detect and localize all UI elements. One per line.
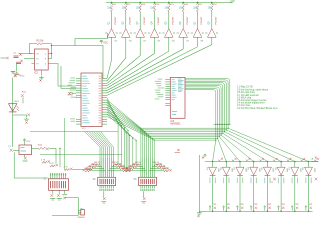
wire col 5 collector down [168, 37, 170, 51]
ground LED branch [24, 118, 29, 121]
wire MCU bus to S2 columns [85, 132, 101, 158]
supply rail left mark [202, 156, 204, 158]
wire S3 to ground [143, 191, 145, 197]
transistor Q8 [208, 29, 217, 38]
svg-text:Q4: Q4 [151, 21, 153, 25]
wire col 5 resistor to transistor [168, 12, 170, 29]
wire S1 feed verticals [55, 148, 57, 163]
switch S2 elements [99, 179, 102, 184]
svg-text:C1: C1 [13, 53, 17, 55]
wire LED8 cathode down [308, 175, 310, 211]
wire diagonals to LED columns [228, 128, 308, 161]
wire bus under MCU [30, 131, 118, 133]
junction bus col 7 [294, 210, 296, 212]
wire S2 column verticals [99, 158, 101, 177]
wire MCU left pin to S1 resistor [63, 118, 65, 170]
IC IC5 box [19, 145, 32, 155]
svg-text:G3: G3 [129, 41, 133, 43]
wire diagonal MCU to col 6 [107, 49, 183, 91]
junction top bus col 8 [211, 2, 213, 4]
switch S2 bottom stubs [99, 186, 101, 189]
wire LED5 cathode down [266, 175, 268, 211]
wire left edge stub [1, 57, 7, 59]
supply pin col 1 [110, 3, 112, 5]
junction rail col 6 [280, 161, 282, 163]
svg-text:R: R [272, 182, 274, 184]
IC IC1 lower left pin stubs [76, 118, 81, 120]
IC IC2 timer box [35, 49, 49, 70]
supply mark right of D4 [260, 160, 262, 162]
resistor R7 [197, 6, 199, 12]
svg-text:IC1: IC1 [82, 128, 86, 130]
transistor Q1 [107, 29, 116, 38]
svg-text:Q7: Q7 [194, 21, 196, 25]
resistor chevron left S2 [95, 164, 100, 166]
switch S3 elements [140, 179, 143, 184]
LED D6 [277, 167, 285, 175]
transistor Q6 base stub [177, 32, 179, 34]
supply VCC at MCU top [100, 40, 103, 43]
svg-text:R11: R11 [112, 4, 117, 6]
transistor Q3 [136, 29, 145, 38]
svg-text:PN2907: PN2907 [129, 16, 131, 25]
supply arrow col 4 [250, 206, 252, 211]
switch S3 box [139, 177, 157, 185]
transistor Q5 [165, 29, 174, 38]
resistor R5 [168, 6, 170, 12]
svg-text:PN2907: PN2907 [187, 16, 189, 25]
supply pin col 4 [153, 3, 155, 5]
wire pin2 to part [24, 58, 32, 60]
resistor R3 [37, 43, 44, 45]
wire RN1c to S2 area [73, 169, 92, 171]
resistor R8 [211, 6, 213, 12]
resistor R12 [39, 147, 46, 149]
wire LED3 cathode down [239, 175, 241, 211]
ground S1 b [57, 194, 60, 197]
svg-text:150: 150 [165, 8, 170, 10]
net label near S3 [177, 149, 179, 151]
svg-text:R16: R16 [184, 4, 189, 6]
svg-text:VCC: VCC [103, 43, 108, 45]
ground S2 [103, 197, 106, 200]
ground S1 a [51, 194, 54, 197]
svg-text:PN2907: PN2907 [158, 16, 160, 25]
resistor bottom col 2 [227, 207, 229, 209]
switch S1 elements [49, 181, 52, 188]
wire col 4 resistor to transistor [154, 12, 156, 29]
IC IC1 left pin stubs [76, 78, 81, 80]
LED D8 [305, 167, 313, 175]
wire LED1 cathode down [212, 175, 214, 211]
IC IC1 left pin labels [71, 77, 76, 80]
resistor chevron right S2 [113, 164, 118, 166]
junction staircase dot row [214, 123, 230, 125]
supply mark right of D2 [232, 160, 234, 162]
flag top of rail [11, 72, 15, 73]
svg-text:R: R [45, 58, 47, 60]
transistor Q4 base stub [148, 32, 150, 34]
wire R12 right [49, 147, 56, 149]
transistor Q5 base stub [162, 32, 164, 34]
wire col 7 resistor to transistor [197, 12, 199, 29]
LED D1 [209, 167, 217, 175]
LED D3 value text [237, 178, 238, 184]
junction rail col 4 [253, 161, 255, 163]
wire C1 to pin1 [19, 53, 32, 55]
switch S3 bottom labels [140, 189, 141, 191]
wire IC5 to S1 [14, 152, 48, 178]
capacitor C1 [19, 53, 22, 56]
svg-text:PN2907: PN2907 [215, 16, 217, 25]
extra part near D8 [315, 178, 318, 181]
transistor Q2 base stub [119, 32, 121, 34]
svg-text:Q1: Q1 [108, 21, 110, 25]
svg-text:S3: S3 [134, 179, 138, 181]
svg-text:LED: LED [314, 168, 316, 172]
junction top bus col 7 [197, 2, 199, 4]
wire IC2 pin to MCU PB [52, 64, 77, 87]
svg-text:R17: R17 [198, 4, 203, 6]
supply pin col 2 [125, 3, 127, 5]
wire inner loop [29, 53, 31, 55]
svg-text:R10: R10 [22, 91, 27, 93]
switch S1 box [49, 179, 69, 191]
net label N$ top-right [230, 1, 233, 3]
junction top bus col 1 [111, 2, 113, 4]
transistor Q7 base stub [191, 32, 193, 34]
transistor Q8 base stub [205, 32, 207, 34]
connector JP1 [78, 209, 80, 211]
svg-text:Q6: Q6 [180, 21, 182, 25]
svg-text:PINHD: PINHD [78, 217, 85, 219]
svg-text:G4: G4 [143, 41, 147, 43]
wire rail to LED3 [239, 162, 241, 168]
capacitor C4 [27, 114, 30, 117]
svg-text:150: 150 [193, 8, 198, 10]
svg-text:4.7K: 4.7K [41, 160, 46, 162]
wire rail to LED5 [266, 162, 268, 168]
wire diagonal MCU to col 3 [107, 56, 140, 84]
wire JP1 bottom [52, 214, 78, 216]
junction bus col 4 [253, 210, 255, 212]
transistor Q3 base stub [134, 32, 136, 34]
junction bus col 5 [267, 210, 269, 212]
wire IC5 right [32, 147, 39, 149]
wire LED6 cathode down [280, 175, 282, 211]
supply pin col 6 [182, 3, 184, 5]
wire LED bottom bus [199, 210, 312, 212]
svg-text:150: 150 [136, 8, 141, 10]
supply pin col 7 [196, 3, 198, 5]
resistor chevron right S3 [154, 164, 159, 166]
IC IC1 pin names [82, 75, 87, 78]
supply pin col 5 [168, 3, 170, 5]
supply arrow col 1 [209, 206, 211, 211]
wire diagonal MCU to col 2 [107, 58, 126, 81]
wire diagonal MCU to col 7 [107, 47, 198, 93]
wire col 6 resistor to transistor [182, 12, 184, 29]
wire col 8 collector down [211, 37, 213, 44]
wire col 1 resistor to transistor [111, 12, 113, 29]
LED D1 value text [209, 178, 210, 184]
wire rail to LED8 [308, 162, 310, 168]
svg-text:PN2907: PN2907 [201, 16, 203, 25]
LED D2 value text [223, 178, 224, 184]
supply mark right of D6 [287, 160, 289, 162]
svg-text:PN2907: PN2907 [115, 16, 117, 25]
supply pin col 8 [211, 3, 213, 5]
wire aux to MCU [61, 66, 76, 88]
supply mark right of D1 [218, 160, 220, 162]
supply mark right of D7 [301, 160, 303, 162]
wire bus mid-left [40, 154, 122, 156]
svg-text:PN2907: PN2907 [172, 16, 174, 25]
svg-text:0.2 lck PSU fixed. Worked! Boo: 0.2 lck PSU fixed. Worked! Boost op a [237, 107, 278, 110]
IC IC2 left pin stubs [32, 53, 35, 55]
svg-text:Q: Q [45, 53, 47, 55]
junction feedback-output [51, 45, 53, 47]
svg-text:4.7K: 4.7K [64, 167, 69, 169]
IC IC3 driver box [170, 77, 185, 118]
wire fan MCU to S2/S3 outer resistors [107, 98, 118, 165]
LED D3 [236, 167, 244, 175]
junction bus col 3 [239, 210, 241, 212]
svg-text:G6: G6 [172, 41, 176, 43]
wire S1 column stubs [50, 173, 52, 179]
svg-text:G7: G7 [186, 41, 190, 43]
svg-text:G5: G5 [157, 41, 161, 43]
wire col 2 resistor to transistor [125, 12, 127, 29]
resistor bottom col 6 [282, 207, 284, 209]
resistor bottom col 1 [214, 207, 216, 209]
resistor chevron left S3 [136, 164, 141, 166]
switch S1 bottom stubs [52, 190, 54, 194]
svg-text:150: 150 [122, 8, 127, 10]
transistor Q4 [150, 29, 159, 38]
supply arrow col 3 [236, 206, 238, 211]
svg-text:R3 1M: R3 1M [37, 41, 44, 43]
svg-text:R12: R12 [38, 144, 43, 146]
resistor R4 [154, 6, 156, 12]
wire IC2 out to MCU [52, 46, 104, 79]
wire LED anode rail [205, 161, 318, 163]
supply pin col 3 [139, 3, 141, 5]
svg-text:150: 150 [208, 8, 213, 10]
ground LED bus [197, 211, 202, 214]
junction bus col 2 [226, 210, 228, 212]
supply arrow col 7 [291, 206, 293, 211]
LED D6 value text [278, 178, 279, 184]
svg-text:R15: R15 [170, 4, 175, 6]
IC IC1 pin numbers [99, 75, 101, 78]
junction rail col 3 [239, 161, 241, 163]
supply arrow col 5 [264, 206, 266, 211]
wire col 7 collector down [197, 37, 199, 47]
LED D5 [263, 167, 271, 175]
svg-text:G8: G8 [200, 41, 204, 43]
svg-text:VCC: VCC [26, 141, 31, 143]
switch S2 box [98, 177, 116, 185]
svg-text:Q2: Q2 [123, 21, 125, 25]
wire rail continues right [311, 161, 319, 163]
wire rail to LED1 [212, 162, 214, 168]
supply VCC IC5 [23, 139, 26, 142]
junction bus col 1 [212, 210, 214, 212]
transistor Q2 [122, 29, 131, 38]
resistor bottom col 4 [255, 207, 257, 209]
wire oscillator output to Q1 base [75, 33, 107, 46]
resistor bottom col 8 [310, 207, 312, 209]
capacitor C2 [20, 60, 23, 63]
svg-text:150: 150 [150, 8, 155, 10]
wire rail to LED4 [253, 162, 255, 168]
wire top VCC bus [106, 1, 230, 3]
supply arrow col 8 [305, 206, 307, 211]
part right of rail [21, 94, 24, 97]
LED D2 [222, 167, 230, 175]
connector X1 [10, 149, 13, 152]
svg-text:R14: R14 [155, 4, 160, 6]
IC IC5 bottom pin [24, 155, 26, 158]
junction top bus col 3 [139, 2, 141, 4]
resistor R3 [139, 6, 141, 12]
switch S1 labels [50, 174, 51, 176]
svg-text:>A: >A [311, 158, 314, 161]
junction top bus col 6 [182, 2, 184, 4]
transistor Q7 [193, 29, 202, 38]
svg-text:TR: TR [36, 53, 39, 55]
wire LED branch [13, 115, 27, 117]
IC IC3 pin names [178, 78, 182, 81]
supply arrow col 2 [223, 206, 225, 211]
wire S1 to JP1 [65, 198, 79, 211]
LED D8 value text [305, 178, 306, 184]
svg-text:150: 150 [107, 8, 112, 10]
IC IC1 right pin stubs [102, 78, 107, 80]
svg-text:PN2907: PN2907 [144, 16, 146, 25]
ground IC2 [41, 70, 43, 76]
wire diagonal MCU to col 1 [107, 60, 112, 79]
wire LED7 cathode down [294, 175, 296, 211]
resistor bottom col 5 [269, 207, 271, 209]
junction rail col 8 [308, 161, 310, 163]
svg-text:MAX6921: MAX6921 [171, 123, 182, 126]
LED D4 [250, 167, 258, 175]
IC IC3 left pin stubs and labels [165, 79, 170, 81]
svg-text:R12: R12 [127, 4, 132, 6]
extra part near D3 [273, 178, 276, 181]
svg-text:R13: R13 [141, 4, 146, 6]
wire col 8 resistor to transistor [211, 12, 213, 29]
wire diagonal MCU to col 5 [107, 51, 169, 88]
wire col 3 resistor to transistor [139, 12, 141, 29]
switch S2 bottom labels [99, 189, 100, 191]
junction bus col 6 [280, 210, 282, 212]
wire C2 down [16, 64, 18, 71]
svg-text:R18: R18 [213, 4, 218, 6]
wire diagonal MCU to col 8 [107, 45, 212, 96]
svg-text:CV: CV [36, 58, 39, 60]
wire LED2 cathode down [225, 175, 227, 211]
transistor Q6 [179, 29, 188, 38]
svg-text:IC3: IC3 [171, 120, 175, 123]
junction rail col 1 [212, 161, 214, 163]
svg-text:G2: G2 [114, 41, 118, 43]
LED D4 value text [251, 178, 252, 184]
LED D7 [291, 167, 299, 175]
wire col 2 collector down [125, 37, 127, 58]
supply mark right of D3 [246, 160, 248, 162]
wire S3 column verticals [140, 158, 142, 177]
wire rail to LED2 [225, 162, 227, 168]
wire S2 to ground [103, 191, 105, 197]
svg-text:IC2: IC2 [34, 71, 39, 74]
wire col 6 collector down [182, 37, 184, 49]
resistor R6 [182, 6, 184, 12]
wire LED4 cathode down [253, 175, 255, 211]
ground C2 [14, 72, 19, 75]
ground S3 [143, 197, 146, 200]
wire IC3 outputs nested corners [185, 79, 230, 125]
part near MCU left pins [68, 92, 71, 95]
resistor bottom col 3 [241, 207, 243, 209]
transistor Q1 base stub [105, 32, 107, 34]
svg-text:Q5: Q5 [166, 21, 168, 25]
wire bus to ground [198, 155, 200, 211]
wire rail to LED7 [294, 162, 296, 168]
junction rail col 7 [294, 161, 296, 163]
svg-text:X1: X1 [8, 146, 11, 148]
svg-text:V: V [45, 63, 47, 65]
resistor bottom col 7 [296, 207, 298, 209]
IC IC1 microcontroller box [81, 73, 102, 127]
LED D5 value text [264, 178, 265, 184]
supply mark right of D5 [273, 160, 275, 162]
junction rail col 5 [267, 161, 269, 163]
svg-text:>Q8: >Q8 [230, 0, 235, 3]
resistor R1 [111, 6, 113, 12]
wire col 1 collector down [111, 37, 113, 60]
svg-text:S1: S1 [44, 179, 48, 181]
svg-text:LED1: LED1 [14, 101, 20, 103]
supply mark right of D8 [314, 160, 316, 162]
junction bus col 8 [308, 210, 310, 212]
LED LED1 [9, 104, 17, 112]
junction top bus col 4 [154, 2, 156, 4]
junction S1 c [62, 194, 67, 196]
junction top bus col 2 [125, 2, 127, 4]
wire feedback loop right [44, 44, 52, 59]
wire fan MCU to S3 resistors and bus [107, 100, 141, 158]
wire left rail [12, 78, 14, 148]
svg-text:TH: TH [36, 63, 39, 65]
junction top bus col 5 [168, 2, 170, 4]
resistor R2 [125, 6, 127, 12]
svg-text:Q3: Q3 [137, 21, 139, 25]
LED D7 value text [292, 178, 293, 184]
svg-text:Q8: Q8 [209, 21, 211, 25]
switch S3 bottom stubs [140, 186, 142, 189]
supply arrow col 6 [278, 206, 280, 211]
wire col 4 collector down [154, 37, 156, 53]
wire col 3 collector down [139, 37, 141, 55]
wire diagonal MCU to col 4 [107, 53, 155, 85]
wire feedback loop left [29, 44, 37, 54]
junction rail col 2 [226, 161, 228, 163]
svg-text:S2: S2 [93, 179, 97, 181]
wire rail to LED6 [280, 162, 282, 168]
